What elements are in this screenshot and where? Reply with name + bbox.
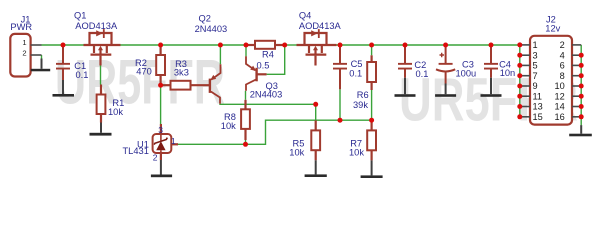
svg-text:10k: 10k	[221, 121, 236, 131]
ground under R1	[90, 123, 112, 136]
wire Q4 gate node to R5	[315, 104, 317, 120]
svg-text:4: 4	[560, 50, 565, 60]
wire U1 pin3 (ref) vertical	[160, 85, 162, 124]
watermark UR5FFR right	[399, 66, 578, 134]
connector J1 pin stubs	[31, 45, 42, 55]
wire R6 top	[371, 45, 373, 55]
op-amp U1 TL431	[153, 124, 178, 160]
svg-text:PWR: PWR	[10, 22, 32, 32]
svg-text:R6: R6	[357, 90, 369, 100]
capacitor C2 0.1	[398, 45, 412, 78]
node C3 top	[443, 43, 448, 48]
svg-text:100u: 100u	[456, 68, 477, 78]
svg-text:0.1: 0.1	[76, 70, 89, 80]
node C5 top	[338, 43, 343, 48]
svg-text:AOD413A: AOD413A	[299, 21, 342, 31]
svg-text:3: 3	[158, 125, 163, 135]
svg-text:8: 8	[560, 71, 565, 81]
resistor R6 39k	[367, 55, 376, 90]
svg-text:10k: 10k	[108, 107, 123, 117]
svg-text:3k3: 3k3	[174, 68, 189, 78]
node C2 top	[403, 43, 408, 48]
ground under R7	[361, 160, 383, 178]
node R2/R3 junction	[158, 83, 163, 88]
connector J2 body	[530, 36, 572, 125]
svg-text:7: 7	[533, 71, 538, 81]
svg-text:1: 1	[533, 40, 538, 50]
svg-text:Q4: Q4	[299, 11, 311, 21]
wire Q1 drain to R4 left node	[121, 44, 247, 46]
resistor R7 10k	[367, 120, 376, 160]
resistor R8 10k	[241, 100, 250, 140]
wire J1 pin1 to Q1 source	[42, 44, 84, 46]
wire R8 bottom to U1 pin1 net	[245, 140, 247, 144]
wire Q3 base to R4 right node	[267, 45, 285, 74]
J2 pin stubs right	[572, 45, 581, 117]
ground under C2	[395, 78, 416, 97]
node R4 left	[244, 43, 249, 48]
wire J2 right column vertical to ground	[580, 45, 582, 125]
node C4 top	[489, 43, 494, 48]
capacitor C1	[56, 45, 70, 80]
node R6/R7 tap	[369, 118, 374, 123]
svg-text:2: 2	[22, 48, 26, 57]
node R6 top	[369, 43, 374, 48]
J2 left pin nodes	[517, 42, 522, 47]
svg-text:10k: 10k	[349, 148, 364, 158]
svg-text:AOD413A: AOD413A	[75, 21, 118, 31]
wire Q4 drain to J2 (12v rail)	[337, 44, 520, 46]
svg-text:470: 470	[136, 66, 152, 76]
svg-text:12v: 12v	[545, 23, 560, 33]
wire J1 pin2 to ground	[41, 55, 43, 60]
wire Q2 emitter	[219, 45, 221, 64]
svg-text:10n: 10n	[500, 68, 516, 78]
wire J2 left column vertical	[519, 45, 521, 117]
svg-text:Q2: Q2	[199, 14, 211, 24]
J2 right pin nodes	[579, 53, 584, 58]
ground under C4	[481, 78, 502, 97]
svg-text:0.5: 0.5	[257, 60, 270, 70]
svg-text:15: 15	[533, 112, 543, 122]
resistor R5 10k	[311, 120, 320, 160]
capacitor C5 0.1	[333, 45, 347, 89]
J2 pin numbers left column	[533, 40, 543, 122]
svg-text:2: 2	[560, 40, 565, 50]
transistor Q1 AOD413A	[84, 33, 121, 66]
connector J1 body	[10, 34, 30, 77]
svg-text:39k: 39k	[353, 100, 368, 110]
svg-text:2N4403: 2N4403	[195, 24, 228, 34]
ground under C3	[435, 84, 456, 97]
svg-text:11: 11	[533, 91, 543, 101]
svg-text:5: 5	[533, 61, 538, 71]
svg-text:14: 14	[554, 102, 564, 112]
ground under J1	[31, 59, 50, 72]
svg-text:10: 10	[554, 81, 564, 91]
node R4 right	[282, 43, 287, 48]
svg-text:2: 2	[153, 153, 158, 163]
wire R4 right node to Q4 source	[285, 44, 297, 46]
wire Q3 emitter	[245, 45, 247, 56]
wire U1 pin1 to R6/R7 tap	[178, 120, 372, 144]
resistor R3 3k3	[161, 81, 210, 90]
node Q4 gate / R5	[313, 102, 318, 107]
ground under J2	[569, 125, 592, 136]
svg-text:9: 9	[533, 81, 538, 91]
node C5 bottom tap	[338, 118, 343, 123]
wire Q2 collector to Q4 gate node	[220, 103, 316, 106]
node C1 top	[61, 43, 66, 48]
transistor Q3 2N4403 (mirrored)	[246, 56, 267, 91]
ground under R5	[305, 160, 327, 177]
wire C5 bottom to tap	[339, 89, 341, 120]
svg-text:3: 3	[533, 50, 538, 60]
svg-text:10k: 10k	[289, 147, 304, 157]
node R2 top	[158, 43, 163, 48]
svg-text:13: 13	[533, 102, 543, 112]
wire Q1 gate to R1	[100, 66, 102, 85]
svg-text:6: 6	[560, 61, 565, 71]
resistor R1 10k	[97, 85, 106, 123]
J2 pin numbers right column	[554, 40, 564, 122]
transistor Q2 2N4403	[209, 64, 221, 104]
svg-text:0.1: 0.1	[349, 68, 362, 78]
capacitor C3 100u	[436, 45, 455, 84]
node R8 bottom	[243, 142, 248, 147]
svg-text:16: 16	[554, 112, 564, 122]
resistor R2 470	[156, 45, 165, 85]
ground under C1	[53, 80, 75, 97]
svg-text:R4: R4	[262, 50, 274, 60]
watermark UR5FFR left	[55, 48, 225, 118]
svg-text:Q1: Q1	[74, 11, 86, 21]
svg-text:2N4403: 2N4403	[250, 90, 283, 100]
svg-text:1: 1	[171, 136, 176, 146]
svg-text:TL431: TL431	[123, 146, 149, 156]
J2 pin stubs left	[520, 45, 530, 117]
ground under U1	[151, 160, 172, 177]
capacitor C4 10n	[484, 45, 498, 78]
wire R6 bottom to tap	[371, 90, 373, 120]
node Q2 emitter	[218, 43, 223, 48]
svg-text:12: 12	[554, 91, 564, 101]
transistor Q4 AOD413A	[297, 33, 337, 66]
resistor R4 0.5	[246, 41, 285, 49]
wire Q3 collector to R8	[245, 91, 247, 100]
svg-text:0.1: 0.1	[416, 69, 429, 79]
svg-text:1: 1	[22, 38, 26, 47]
